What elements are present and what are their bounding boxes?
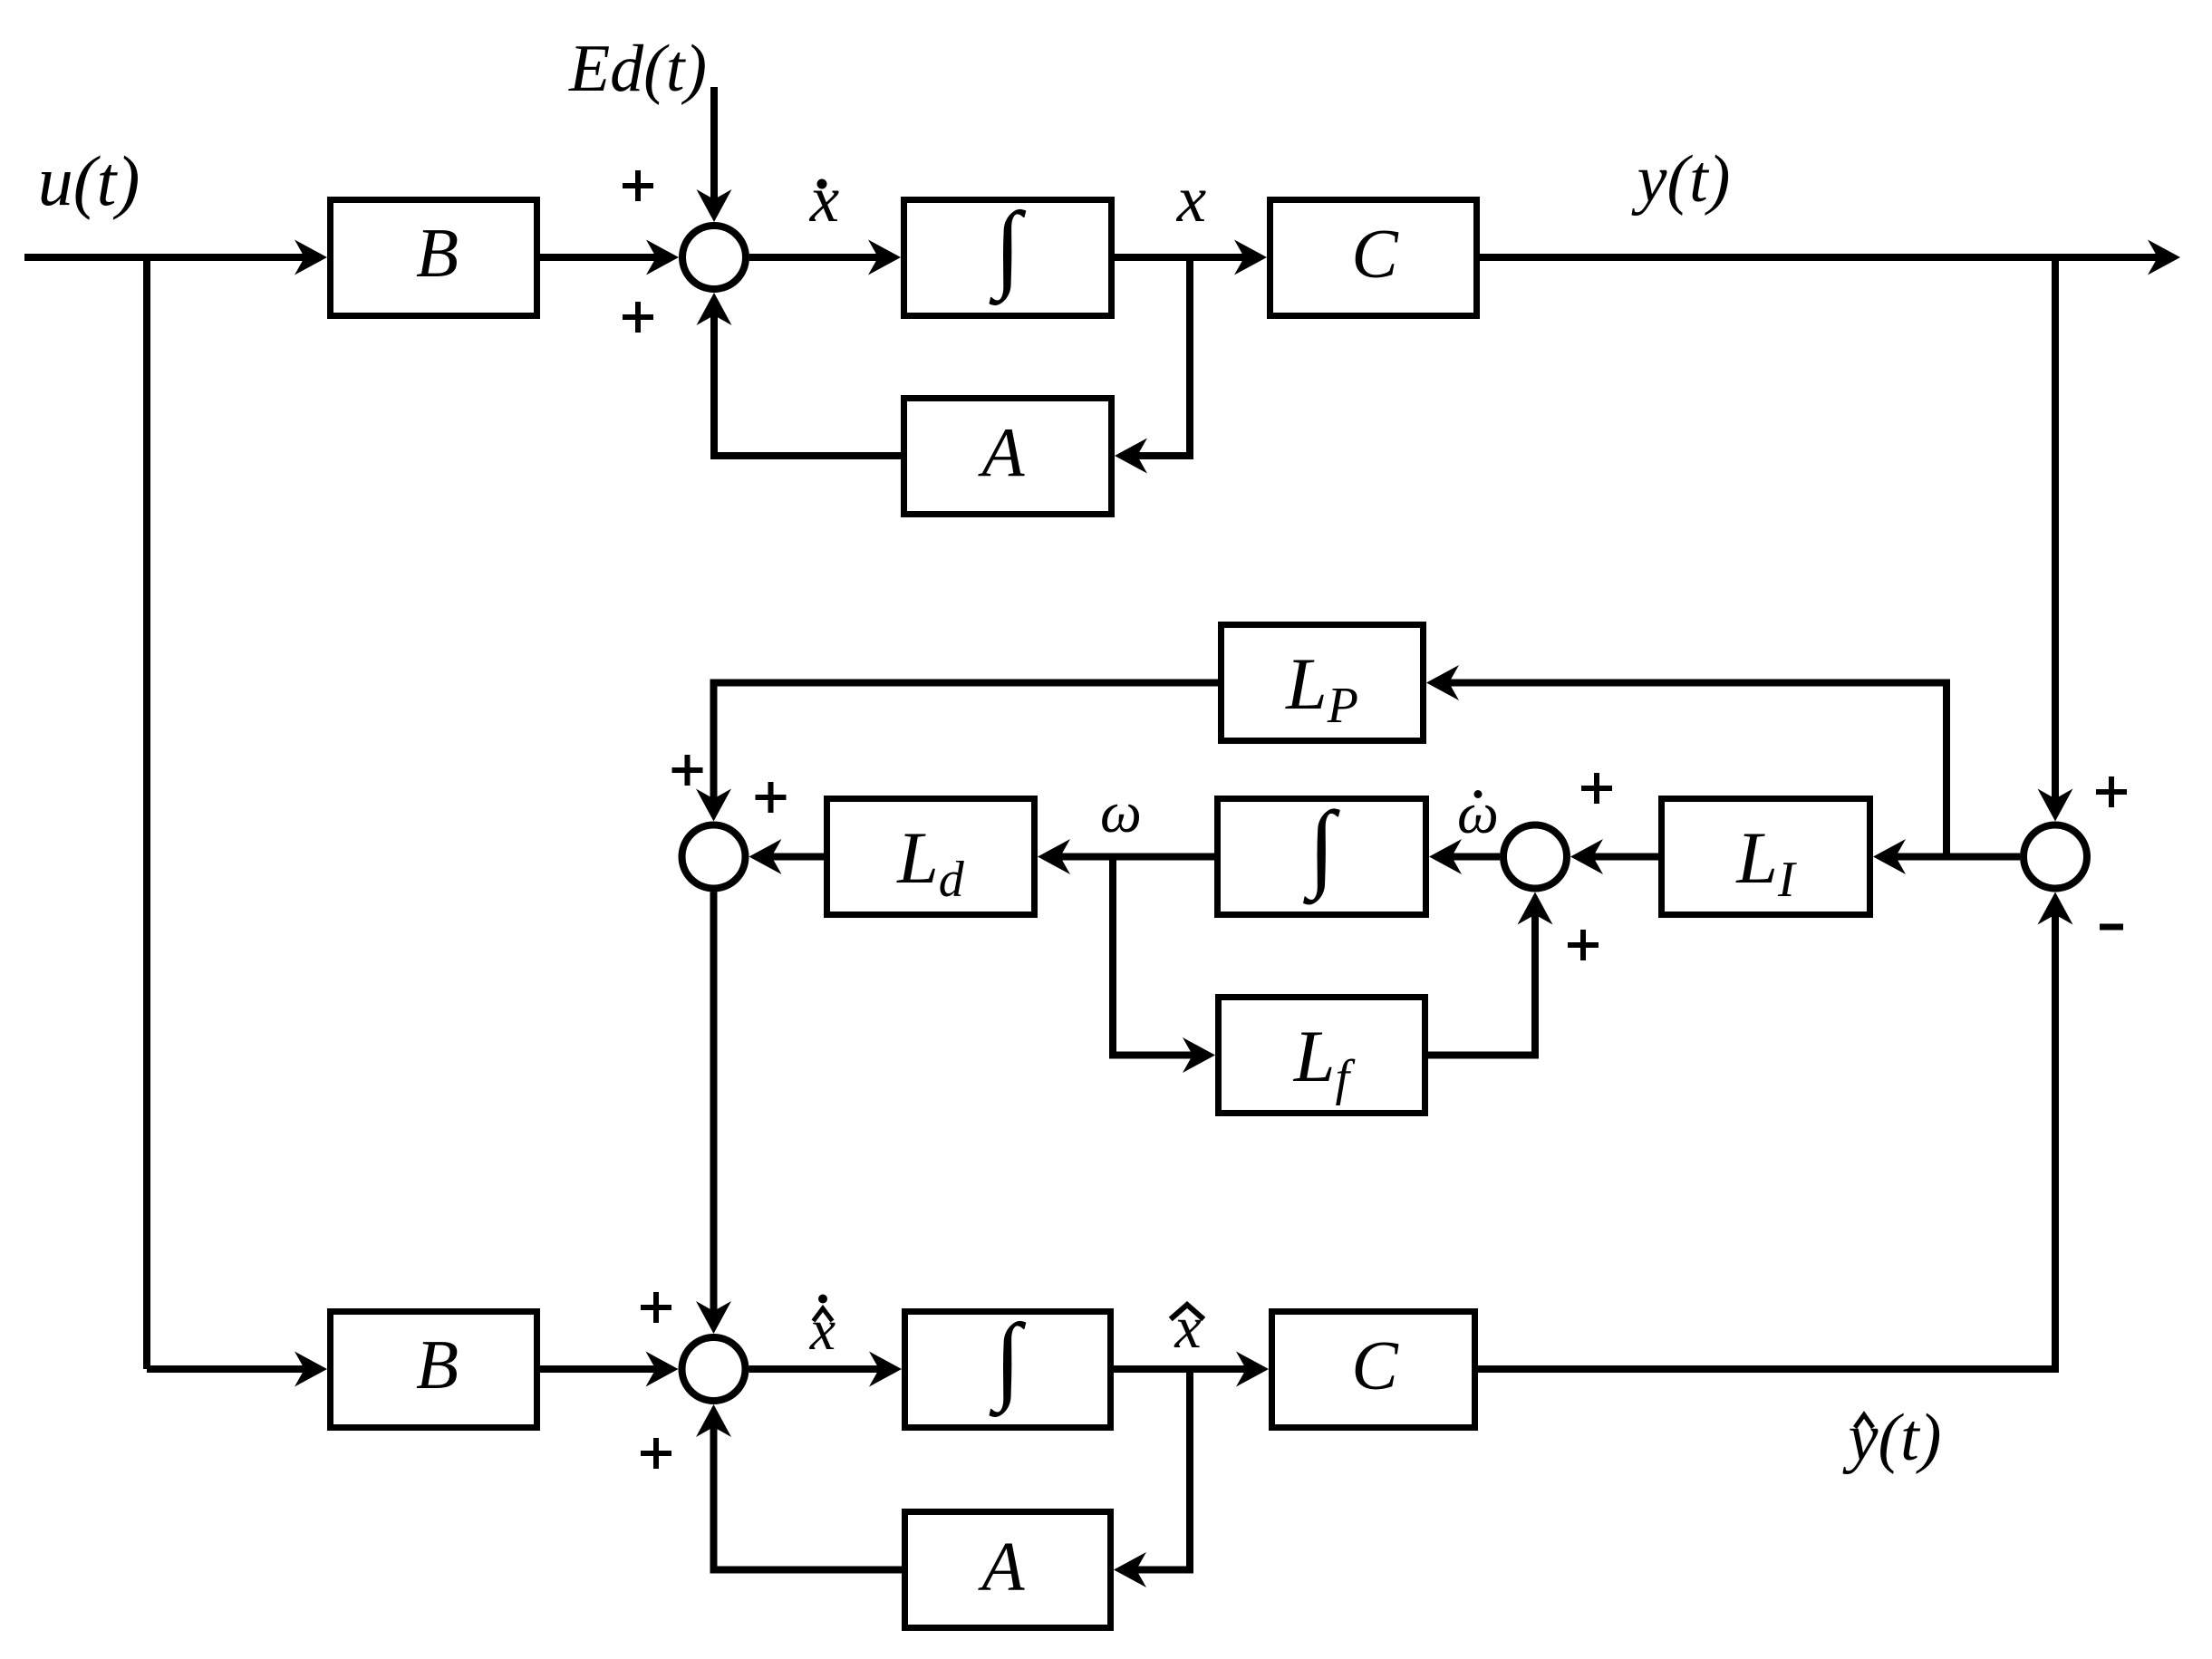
wire Ed(t) into summer S1 xyxy=(697,87,732,222)
wire C1 to y(t) output with junction xyxy=(1480,240,2180,275)
wire xhat junction down to A2 xyxy=(1114,1369,1190,1587)
summing junction S1 xyxy=(682,226,746,289)
wire u(t) branch vertical down to observer xyxy=(143,257,150,1369)
svg-text:x: x xyxy=(809,162,839,236)
svg-text:∫: ∫ xyxy=(989,193,1026,305)
summing junction S4 xyxy=(2024,825,2087,889)
wire C2 output yhat up to summer S4 xyxy=(1478,892,2073,1370)
wire L_f output up to summer S3 xyxy=(1428,892,1553,1056)
node y(t) output label xyxy=(1631,142,1731,217)
wire integrator 1 to C1 with junction node x xyxy=(1115,240,1267,275)
block integrator 3 xyxy=(905,1305,1111,1428)
svg-text:A: A xyxy=(977,413,1025,491)
svg-text:LP: LP xyxy=(1285,642,1358,734)
wire u(t) branch into B2 xyxy=(147,1352,327,1387)
wire L_P output to summer S2 xyxy=(696,683,1218,822)
plus sign S3 right input xyxy=(1581,773,1612,804)
svg-text:∫: ∫ xyxy=(989,1305,1026,1417)
node Ed(t) disturbance label xyxy=(568,32,707,106)
svg-text:y(t): y(t) xyxy=(1842,1401,1942,1475)
node xhat label xyxy=(1173,1295,1202,1361)
plus sign S2 top input left xyxy=(672,755,703,786)
wire A2 feedback to summer S5 xyxy=(696,1404,902,1570)
wire omega junction down into L_f xyxy=(1113,857,1215,1074)
wire integrator 3 to C2 with junction xhat xyxy=(1114,1352,1269,1387)
block integrator 2 xyxy=(1218,793,1426,915)
node xdot label xyxy=(809,162,839,236)
svg-text:Ed(t): Ed(t) xyxy=(568,32,707,106)
svg-text:u(t): u(t) xyxy=(38,141,140,220)
svg-text:LI: LI xyxy=(1735,816,1797,908)
wire L_d to summer S2 xyxy=(749,839,825,874)
wire error junction up and into L_P xyxy=(1426,665,1946,857)
svg-text:Lf: Lf xyxy=(1293,1015,1357,1106)
plus sign S5 top input xyxy=(641,1292,671,1323)
summing junction S2 xyxy=(682,825,746,889)
block A1 xyxy=(904,399,1112,515)
block B1 xyxy=(331,200,537,316)
wire B1 to summer S1 xyxy=(540,240,679,275)
block C1 xyxy=(1270,200,1477,316)
wire y(t) junction down to summer S4 xyxy=(2038,257,2073,822)
block integrator 1 xyxy=(904,193,1112,316)
wire summer S2 output down to summer S5 xyxy=(696,892,731,1335)
block L_P xyxy=(1222,625,1424,741)
summing junction S3 xyxy=(1503,825,1567,889)
wire A1 feedback to summer S1 xyxy=(697,293,902,456)
wire u(t) input to B1 with junction xyxy=(24,240,327,275)
block A2 xyxy=(905,1512,1111,1628)
wire L_I to summer S3 xyxy=(1570,839,1658,874)
block L_f xyxy=(1219,998,1425,1114)
wire S5 to integrator 3 xyxy=(749,1352,903,1387)
node x label xyxy=(1176,162,1206,236)
wire B2 to summer S5 xyxy=(540,1352,679,1387)
svg-text:A: A xyxy=(977,1528,1025,1606)
svg-text:y(t): y(t) xyxy=(1631,142,1731,217)
node yhat(t) label xyxy=(1842,1401,1942,1475)
summing junction S5 xyxy=(682,1337,746,1401)
plus sign S5 bottom input xyxy=(641,1438,671,1469)
svg-text:∫: ∫ xyxy=(1303,793,1340,905)
svg-text:C: C xyxy=(1351,1326,1399,1404)
block C2 xyxy=(1272,1312,1475,1428)
plus sign S3 bottom input xyxy=(1568,930,1599,960)
svg-text:Ld: Ld xyxy=(896,816,965,908)
wire x junction down to A1 xyxy=(1115,257,1190,474)
minus sign S4 bottom input xyxy=(2100,924,2123,931)
node omega label xyxy=(1100,780,1142,845)
plus sign S4 top input xyxy=(2096,776,2127,807)
node xhatdot label xyxy=(809,1295,836,1363)
block L_d xyxy=(827,799,1035,915)
plus sign S2 right input xyxy=(756,782,787,813)
plus sign S1 top input xyxy=(623,170,653,201)
svg-text:B: B xyxy=(416,1326,459,1403)
wire summer S4 to L_I with junction xyxy=(1873,839,2020,874)
wire summer S3 to integrator 2 xyxy=(1429,839,1500,874)
block L_I xyxy=(1662,799,1870,915)
node omegadot label xyxy=(1457,781,1499,846)
wire S1 to integrator 1 xyxy=(749,240,901,275)
plus sign S1 bottom input xyxy=(623,302,653,333)
svg-text:C: C xyxy=(1351,215,1399,293)
node u(t) input label xyxy=(38,141,140,220)
svg-text:ω: ω xyxy=(1100,780,1142,845)
svg-text:x: x xyxy=(1176,162,1206,236)
block B2 xyxy=(331,1312,537,1428)
svg-text:B: B xyxy=(416,214,459,292)
wire integrator 2 to L_d with junction omega xyxy=(1038,839,1214,874)
